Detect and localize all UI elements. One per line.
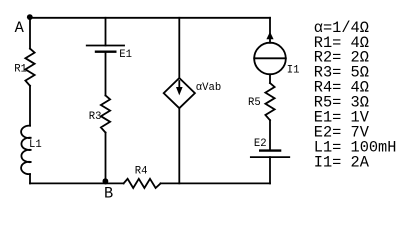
svg-text:αVab: αVab	[196, 82, 221, 94]
wire bottom bus: left corner to node B	[30, 182, 106, 184]
svg-text:L1: L1	[29, 139, 42, 151]
wire: E2 to bottom bus	[269, 157, 271, 183]
svg-text:R3: R3	[89, 111, 102, 123]
svg-text:E1: E1	[119, 49, 132, 61]
wire: diamond to bottom bus	[178, 108, 180, 183]
inductor L1	[21, 126, 31, 174]
current source I1 chord	[254, 57, 286, 59]
svg-text:A: A	[15, 19, 25, 37]
svg-text:B: B	[104, 184, 113, 202]
wire top bus from node A to I1 branch	[30, 17, 270, 19]
resistor R1	[25, 49, 34, 86]
svg-text:I1= 2A: I1= 2A	[314, 153, 370, 171]
battery E2 short plate	[260, 149, 280, 151]
svg-text:I1: I1	[287, 64, 300, 76]
wire: I1 to R5	[269, 74, 271, 83]
wire: R3 down to node B	[105, 133, 107, 184]
svg-text:R1: R1	[14, 63, 27, 75]
arrow inside dependent source	[178, 81, 180, 89]
wire: L1 to bottom bus	[29, 174, 31, 183]
arrowhead of current source I1	[266, 32, 273, 40]
resistor R4	[124, 179, 161, 188]
arrowhead of dependent source	[176, 87, 183, 95]
wire E1 branch: top bus down to E1	[105, 18, 107, 46]
battery E1 long plate	[87, 45, 124, 47]
svg-text:E2: E2	[254, 138, 267, 150]
wire A-branch: node A down to R1	[29, 18, 31, 49]
battery E2 long plate	[251, 156, 289, 158]
wire: node B to R4	[106, 182, 124, 184]
wire bottom bus: R4 to E2 branch corner	[161, 182, 270, 184]
resistor R3	[101, 95, 110, 132]
svg-text:R5: R5	[248, 97, 261, 109]
node B junction dot	[103, 178, 109, 184]
svg-text:R4: R4	[135, 166, 148, 178]
dependent current source diamond	[164, 78, 195, 108]
battery E1 short plate	[96, 51, 115, 53]
wire dependent-source branch: top bus down to diamond	[178, 18, 180, 78]
current source I1 circle	[254, 43, 286, 75]
resistor R5	[265, 83, 274, 120]
wire I1 branch: top bus corner down to current source	[269, 18, 271, 43]
wire: R1 to L1	[29, 86, 31, 126]
wire: E1 to R3	[105, 52, 107, 96]
wire: R5 to E2	[269, 120, 271, 150]
node A junction dot	[27, 14, 33, 20]
